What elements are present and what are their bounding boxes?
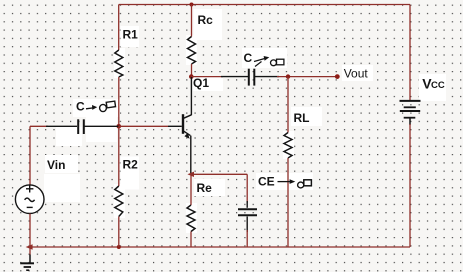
node Vout terminal	[335, 74, 340, 79]
label CE with arrow and infinity	[258, 175, 311, 189]
capacitor C input	[78, 119, 84, 134]
wire R2 branch lower	[118, 217, 120, 248]
svg-text:Rc: Rc	[198, 13, 214, 27]
svg-text:Vout: Vout	[344, 66, 369, 80]
wire Vin branch	[29, 126, 31, 185]
wire CE to bottom rail	[246, 230, 248, 247]
wire emitter node to CE corner	[191, 173, 247, 175]
node base junction	[117, 124, 122, 129]
resistor R1	[115, 50, 123, 77]
wire R2 branch upper	[118, 126, 120, 186]
svg-text:Q1: Q1	[193, 76, 209, 90]
battery Vcc	[400, 101, 421, 125]
svg-text:C: C	[244, 51, 253, 65]
wire R1 branch top	[118, 5, 120, 51]
wire Re branch lower	[190, 232, 192, 248]
svg-text:C: C	[76, 100, 85, 114]
label C input with arrow and infinity	[76, 100, 116, 114]
arrow on bottom rail at ground	[26, 244, 33, 249]
white label background boxes	[44, 9, 446, 233]
wire base node to transistor	[119, 125, 168, 127]
wire Vcc branch top	[409, 5, 411, 101]
node Re bottom	[117, 245, 121, 249]
wire cap lead right	[85, 125, 119, 127]
svg-text:CE: CE	[258, 175, 275, 189]
node RL junction	[286, 74, 290, 78]
arrow at emitter node	[187, 172, 194, 177]
wire RL branch lower	[287, 158, 289, 247]
ground	[20, 255, 34, 271]
capacitor CE	[238, 209, 257, 215]
svg-text:R2: R2	[123, 158, 139, 172]
svg-text:Re: Re	[197, 181, 213, 195]
wire Rc to collector node	[191, 64, 193, 77]
wire R1 to base node	[118, 77, 120, 126]
node collector junction	[189, 74, 194, 79]
source Vin AC	[15, 185, 44, 214]
svg-text:Vin: Vin	[47, 158, 65, 172]
wire Re branch upper	[190, 174, 192, 205]
wire cap lead left	[46, 125, 77, 127]
resistor RL	[284, 133, 292, 159]
svg-text:R1: R1	[123, 28, 139, 42]
transistor Q1	[168, 77, 191, 174]
resistor Rc	[188, 37, 196, 65]
wire Rc branch top	[191, 5, 193, 37]
svg-text:CC: CC	[431, 80, 445, 91]
wire Vin to ground rail	[29, 214, 31, 255]
wire CE branch upper	[246, 174, 248, 203]
svg-text:RL: RL	[294, 111, 310, 125]
wire out cap lead right	[255, 76, 279, 78]
capacitor C output	[249, 69, 255, 86]
wire RL branch upper	[287, 77, 289, 133]
wire Vcc branch bottom	[409, 124, 411, 247]
wire collector node to out cap	[191, 76, 223, 78]
wire input corner to cap	[30, 125, 48, 127]
wire out cap lead left	[221, 76, 248, 78]
resistor Re	[187, 205, 195, 232]
wire bottom rail	[30, 246, 410, 248]
label C output with arrow and infinity	[244, 51, 284, 67]
wire CE cap lead top	[246, 201, 248, 208]
wire to Vout	[277, 76, 337, 78]
node top rail / Rc junction	[190, 3, 194, 7]
wire top rail	[119, 4, 410, 6]
resistor R2	[115, 186, 123, 217]
wire CE cap lead bottom	[246, 217, 248, 233]
